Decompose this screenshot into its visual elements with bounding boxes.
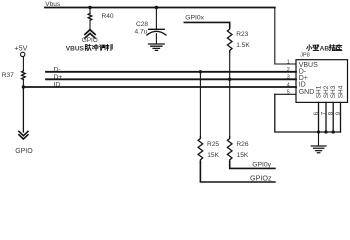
wire D+ to R26 [229, 79, 231, 136]
wire GPIOx [184, 22, 229, 27]
svg-text:3: 3 [287, 75, 290, 81]
port arrow GPIO (up) [85, 30, 95, 38]
svg-text:GPI0x: GPI0x [185, 15, 204, 22]
svg-text:GND: GND [299, 89, 315, 96]
wire shield pin 9 [340, 102, 342, 132]
svg-text:SH2: SH2 [323, 85, 330, 98]
wire R23 to D+ line [229, 52, 231, 79]
wire ID junction down to GPIO port [22, 87, 24, 132]
junction R25/D- [199, 70, 202, 73]
wire +5V to R37 [22, 57, 24, 71]
svg-text:ID: ID [299, 82, 306, 89]
svg-text:R23: R23 [236, 31, 248, 38]
CJK 座 [336, 45, 342, 51]
CJK 脉 [85, 44, 91, 50]
svg-text:2: 2 [287, 67, 290, 73]
resistor R23 [227, 27, 232, 52]
wire R26 to GPIOy [230, 162, 275, 169]
label VBUS pulse modulation (bold) [66, 45, 85, 52]
wire R25 to GPIOz [200, 162, 275, 182]
wire shield pin 6 [318, 102, 320, 132]
wire VBUS vertical drop to JP8 pin 1 [275, 8, 296, 65]
ground (JP8 shield) [311, 146, 326, 153]
svg-text:C28: C28 [136, 21, 148, 28]
svg-text:GPIO: GPIO [82, 37, 98, 44]
power symbol +5V circle [21, 52, 25, 56]
wire shield pin 7 [325, 102, 327, 132]
capacitor C28 [149, 28, 165, 30]
junction shield 8/GND [332, 130, 335, 133]
wire GND drop [275, 94, 341, 132]
junction shield 7/GND [324, 130, 327, 133]
wire C28 to ground [155, 34, 157, 44]
ground (C28) [149, 44, 165, 50]
wire R37 to ID junction [22, 80, 24, 88]
svg-text:R25: R25 [207, 141, 219, 148]
wire GND pin 5 stub [275, 93, 296, 95]
CJK 冲 [92, 44, 98, 50]
svg-text:15K: 15K [207, 152, 219, 159]
wire D+ line [46, 78, 296, 80]
junction R23,R26/D+ [228, 78, 231, 81]
svg-text:1: 1 [287, 60, 290, 66]
CJK 调 [99, 45, 105, 50]
svg-text:GPIOz: GPIOz [250, 173, 272, 182]
svg-text:R40: R40 [102, 13, 114, 20]
svg-text:GPIO: GPIO [15, 148, 33, 155]
svg-text:GPI0y: GPI0y [252, 162, 271, 169]
svg-text:AB: AB [320, 46, 330, 53]
svg-text:JP8: JP8 [300, 53, 309, 59]
svg-text:1.5K: 1.5K [236, 42, 250, 49]
wire D- to R25 [199, 72, 201, 137]
svg-text:SH3: SH3 [330, 85, 337, 98]
CJK 小 [307, 45, 312, 50]
svg-text:+5V: +5V [14, 43, 27, 52]
svg-text:R26: R26 [236, 141, 248, 148]
wire Vbus to C28 [155, 8, 157, 29]
resistor R25 [198, 137, 203, 162]
svg-text:SH1: SH1 [315, 85, 322, 98]
svg-text:15K: 15K [237, 152, 249, 159]
svg-text:4.7u: 4.7u [135, 28, 148, 35]
svg-text:R37: R37 [2, 72, 14, 79]
resistor R26 [227, 137, 232, 162]
wire D- line [46, 71, 296, 73]
CJK 插 [329, 45, 335, 51]
junction R37/ID [22, 85, 25, 88]
junction shield 6/GND [317, 130, 320, 133]
connector JP8 box [296, 60, 348, 103]
wire ID line [23, 86, 296, 88]
wire Vbus horizontal [45, 7, 275, 9]
resistor R40 [88, 13, 92, 20]
svg-text:SH4: SH4 [337, 85, 344, 98]
CJK 制 [106, 44, 112, 50]
junction R40/Vbus [88, 6, 91, 9]
port arrow GPIO (down) [19, 131, 28, 139]
wire Vbus to R40 [89, 8, 91, 14]
wire GND stem [318, 132, 320, 146]
svg-text:VBUS: VBUS [66, 45, 85, 52]
wire shield pin 8 [332, 102, 334, 132]
CJK 型 [313, 45, 319, 51]
svg-text:4: 4 [287, 82, 290, 88]
junction C28/Vbus [155, 6, 158, 9]
resistor R37 [22, 71, 26, 80]
wire R40 to GPIO port [89, 20, 91, 30]
